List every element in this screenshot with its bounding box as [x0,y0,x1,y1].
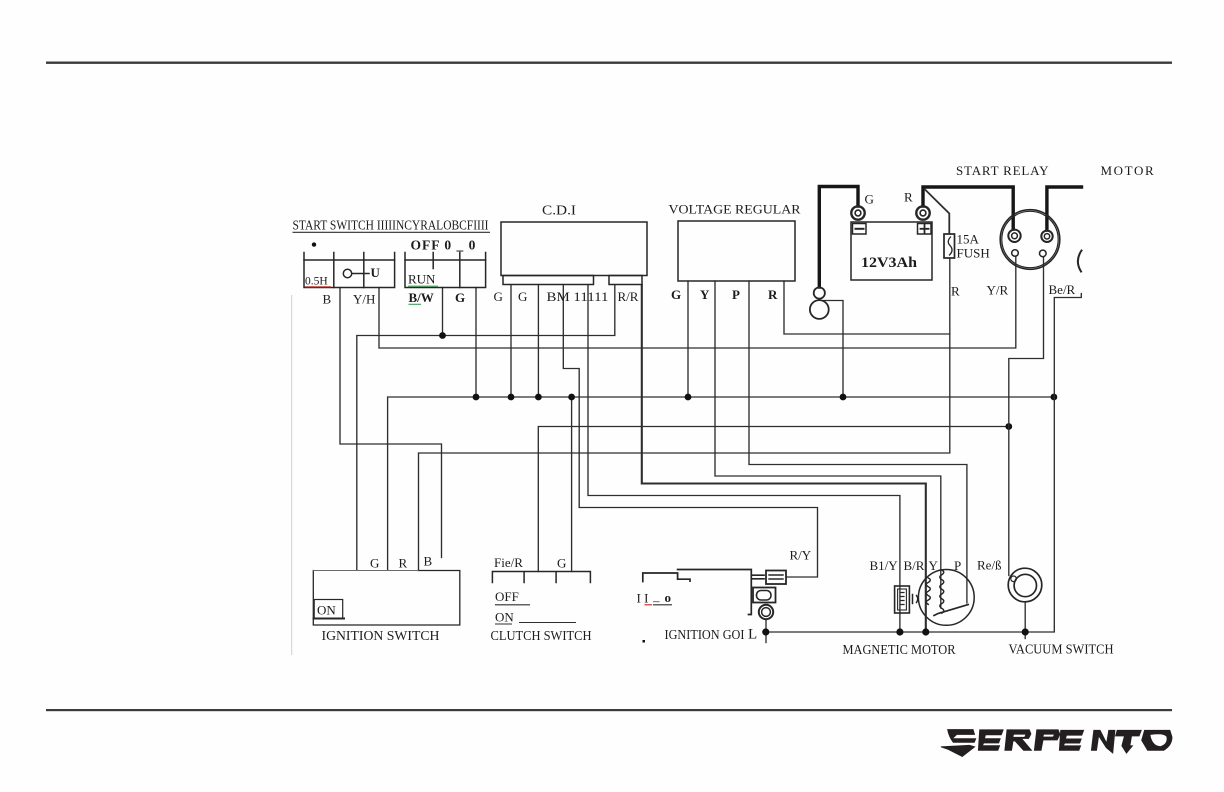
grommet / ground bolt [814,287,825,298]
start relay body circle [1000,210,1060,270]
node B1/Y on bottom rail [896,628,903,635]
logo letter S [947,729,976,743]
magnetic motor side rectangle component [895,586,910,613]
wire start relay to motor (thick) [1047,187,1082,230]
svg-text:B1/Y: B1/Y [870,558,899,573]
voltage regulator box [678,221,795,281]
svg-text:START SWITCH IIIIINCYRALOBCFII: START SWITCH IIIIINCYRALOBCFIIII [293,218,489,233]
start switch connector left box [304,260,395,288]
svg-text:R: R [951,284,960,299]
battery plus terminal box [918,224,932,235]
svg-text:R/Y: R/Y [790,548,812,563]
svg-text:Y/H: Y/H [353,292,375,307]
svg-text:MOTOR: MOTOR [1101,163,1156,178]
wire motor return: down to ground bottom rail, left to ignition coil [766,294,1082,633]
magnetic motor coil squiggle left [926,578,930,604]
svg-text:ON: ON [317,603,336,618]
wire H6: ignition switch R pin to fuse/battery + rail [419,259,950,571]
svg-text:Re/ß: Re/ß [977,558,1002,573]
svg-text:IGNITION SWITCH: IGNITION SWITCH [322,629,440,644]
svg-text:G: G [518,289,527,304]
node vacuum stub on bottom rail [1022,628,1029,635]
wire H5: start switch B pin to ignition switch B pin [340,288,442,558]
wire CDI right pin to magnetic motor B/R (heavier) [642,285,926,632]
node junctions on H3 [473,394,480,401]
svg-text:R: R [768,287,778,302]
wire vacuum switch stub [1024,602,1026,639]
svg-text:RUN: RUN [408,272,436,287]
C.D.I connector tab left [503,276,594,285]
svg-text:FUSH: FUSH [957,246,990,261]
logo letter E [978,729,1004,750]
svg-text:B: B [323,292,332,307]
magnetic motor pickup diagonal [934,605,968,616]
svg-text:Y/R: Y/R [987,283,1009,298]
battery G ring terminal [851,206,864,219]
svg-text:0.5H: 0.5H [305,276,328,288]
svg-text:o: o [665,590,672,605]
svg-text:Fie/R: Fie/R [494,555,523,570]
svg-text:12V3Ah: 12V3Ah [861,255,917,271]
wire battery + to fuse (diagonal) [925,189,950,234]
wire VR P pin to magnetic motor P [749,281,967,603]
svg-text:OFF: OFF [495,589,519,604]
wire CDI G1 to H3 [510,285,512,397]
node coil stub on bottom rail [762,628,769,635]
wire start switch G to H3 [475,288,477,398]
wire H3 ground rail: ignition switch pin G up and right to motor return line [388,397,1054,570]
svg-text:G: G [557,556,566,571]
top rule [46,62,1172,64]
wire VR Y pin to magnetic motor Y [715,281,941,608]
svg-text:G: G [370,556,379,571]
wire CDI BM pin to ignition coil R/Y [563,285,817,577]
svg-text:START RELAY: START RELAY [956,163,1049,178]
start relay terminal small left [1012,250,1019,257]
bullet dot [312,242,316,246]
svg-text:R/R: R/R [618,289,639,304]
svg-text:_: _ [652,589,660,604]
SERPENTO logo [941,729,1173,757]
scan artifact pale line [291,295,292,655]
svg-text:ON: ON [495,610,514,625]
bottom rule [46,709,1172,711]
wire H1 rail: CDI R/R pin to ignition switch pin1, with B/W tap [357,285,615,570]
start switch contact symbol [343,269,351,277]
svg-text:MAGNETIC MOTOR: MAGNETIC MOTOR [843,643,957,658]
ignition switch box [313,571,460,626]
svg-text:B/R: B/R [904,558,925,573]
svg-text:IGNITION GOI: IGNITION GOI [665,628,745,643]
svg-text:I I: I I [637,591,649,606]
wire battery G terminal to grommet (thick) [819,187,858,288]
logo letter T [1115,730,1142,754]
wire B/W from start switch to H1 [442,288,444,336]
logo letter N [1091,730,1116,754]
battery R ring terminal [916,206,929,219]
wire CDI G2 to H3 [537,285,539,397]
wire CDI 11111 pin to magnetic motor B1/Y [588,285,900,632]
C.D.I box U1 [501,222,647,276]
start switch connector right bracket [405,253,486,269]
ignition coil top lead [678,570,752,615]
svg-text:R: R [904,190,913,205]
svg-text:G: G [865,192,874,207]
ignition coil connector body [766,571,786,585]
wire H4: clutch Fie/R pin to Be/R chain [538,427,1009,572]
svg-text:15A: 15A [957,232,980,247]
svg-text:G: G [494,289,503,304]
ignition switch ON box [314,600,343,619]
svg-text:R: R [399,556,408,571]
svg-text:G: G [455,290,465,305]
svg-text:Y: Y [929,558,939,573]
vacuum switch body [1008,568,1042,602]
svg-text:Be/R: Be/R [1049,282,1076,297]
svg-text:G: G [671,287,681,302]
battery minus terminal box [853,224,867,235]
fuse 15A body [944,234,955,258]
start relay terminal small right [1040,250,1047,257]
start switch connector right box [405,260,486,288]
logo letter O [1141,730,1172,751]
svg-text:P: P [954,558,961,573]
magnetic motor body circle [918,570,974,626]
svg-text:L: L [748,627,757,643]
logo letter R [1004,729,1032,750]
start switch connector left bracket [304,253,395,261]
start relay terminal big right [1041,231,1052,242]
ignition coil connector bracket [643,573,690,582]
wire H2 rail: Y/H start switch pin to start relay Y/R terminal [379,257,1016,348]
spark plug cap circle [759,605,773,619]
svg-text:BM 11111: BM 11111 [547,289,609,304]
motor arc (partial outline) [1078,251,1082,272]
ignition coil prongs [753,575,765,579]
svg-text:VACUUM SWITCH: VACUUM SWITCH [1009,643,1114,658]
battery 12V3Ah box [851,222,932,280]
ignition coil body box [753,588,776,603]
logo letter P [1034,729,1061,750]
C.D.I connector tab right [609,276,642,285]
start relay terminal big left [1008,230,1020,242]
svg-text:CLUTCH SWITCH: CLUTCH SWITCH [491,629,592,644]
magnetic motor bracket marks [913,595,918,604]
svg-text:Y: Y [700,287,710,302]
wire Be/R chain: relay terminal down to vacuum switch [1009,257,1044,576]
node junction B/W on H1 [439,332,446,339]
wire clutch G pin from H3 down [571,397,573,572]
wire VR G pin to H3 [687,281,689,397]
svg-text:U: U [371,265,381,280]
clutch switch connector bracket [492,572,590,583]
logo letter E [1059,730,1084,751]
svg-text:C.D.I: C.D.I [542,204,576,219]
svg-text:VOLTAGE REGULAR: VOLTAGE REGULAR [669,202,801,217]
wire VR R pin to fuse vertical [784,281,950,334]
svg-text:P: P [732,287,740,302]
node B/R on bottom rail [922,628,929,635]
svg-text:B: B [424,554,433,569]
magnetic motor coil squiggle right [940,570,944,613]
wire ignition coil ground stub [765,620,767,643]
wire battery R terminal to start relay (thick) [923,187,1013,229]
svg-text:B/W: B/W [409,290,434,305]
svg-text:OFF 0 _ 0: OFF 0 _ 0 [411,238,477,253]
wire grommet to H3 [824,301,843,398]
